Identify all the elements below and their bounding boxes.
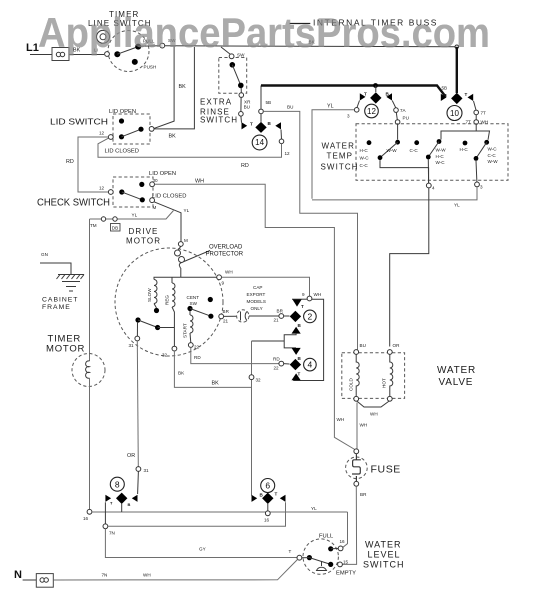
wire 21 to cam2 diamond — [284, 315, 290, 317]
temp arm C — [476, 142, 487, 158]
svg-text:N: N — [14, 569, 22, 581]
REG coil — [172, 283, 175, 307]
wire BU from 5B node to right — [263, 111, 357, 349]
wire cam14 stem up / 5B — [260, 114, 262, 122]
svg-text:WH: WH — [360, 423, 368, 428]
wire pivot down to 31 — [136, 322, 138, 336]
svg-text:LID OPEN: LID OPEN — [109, 109, 136, 115]
terminal 31 (motor) — [135, 336, 140, 341]
wire START bottom to 22 — [189, 333, 192, 343]
full contact dot — [328, 546, 333, 551]
svg-text:WH: WH — [370, 412, 378, 417]
circled 2 — [304, 310, 317, 323]
svg-text:4: 4 — [432, 186, 435, 191]
wire cam12 left to terminal 3 — [357, 101, 360, 108]
wire WH 9 to cam2 bracket — [222, 277, 310, 296]
overload protector symbol — [178, 246, 181, 250]
cam 8 diamond — [116, 493, 127, 504]
svg-text:T: T — [465, 92, 468, 97]
svg-text:W-C: W-C — [436, 160, 446, 165]
terminal 5B node — [259, 109, 264, 114]
svg-text:C-C: C-C — [360, 163, 369, 168]
terminal 32 (motor) — [172, 346, 177, 351]
wire into cam14 left contact — [240, 116, 243, 122]
svg-text:WH: WH — [195, 179, 204, 185]
circled 12 — [365, 104, 379, 118]
terminal M (motor) — [178, 242, 183, 247]
terminal above cam 14 left — [239, 112, 244, 117]
svg-text:31: 31 — [144, 468, 150, 473]
terminal M (check) — [150, 198, 155, 203]
speed arm pivot dot — [135, 317, 140, 322]
svg-text:16: 16 — [340, 539, 346, 544]
wire OR 31 down — [137, 341, 138, 467]
lid switch arm — [122, 129, 142, 137]
cam 4 top contact (B) — [292, 348, 301, 355]
svg-text:T: T — [289, 549, 292, 554]
svg-text:MOTOR: MOTOR — [46, 344, 85, 355]
terminal LI — [105, 52, 110, 57]
terminal 16 (cam6) — [265, 511, 270, 516]
svg-text:C-C: C-C — [488, 153, 497, 158]
svg-text:LID CLOSED: LID CLOSED — [105, 149, 139, 155]
svg-text:GY: GY — [199, 547, 206, 552]
svg-text:H-C: H-C — [436, 154, 445, 159]
circled 14 — [252, 135, 267, 150]
svg-text:16: 16 — [264, 518, 270, 523]
wire 7T to WH — [475, 115, 477, 120]
svg-text:YL: YL — [311, 506, 317, 511]
svg-text:TEMP: TEMP — [327, 152, 354, 161]
temp arm C tip dot — [484, 140, 489, 145]
svg-text:TM: TM — [90, 223, 97, 228]
pivot dot — [307, 555, 312, 560]
wire N line — [53, 559, 297, 580]
wire YL cam12 to left — [312, 110, 354, 199]
cam 2 diamond — [290, 311, 301, 322]
wire 21 to capacitor — [224, 315, 237, 317]
svg-text:T: T — [301, 304, 304, 309]
svg-text:6: 6 — [265, 481, 270, 491]
bus 16 horizontal — [92, 511, 348, 513]
svg-text:CAP: CAP — [253, 285, 262, 290]
junction node top right — [455, 45, 459, 49]
svg-text:WATER: WATER — [322, 142, 356, 151]
svg-text:SWITCH: SWITCH — [363, 559, 405, 569]
wire to terminal 9 — [181, 276, 217, 278]
terminal 7T/WH — [474, 120, 479, 125]
svg-text:LID SWITCH: LID SWITCH — [50, 117, 108, 127]
svg-text:BU: BU — [360, 343, 366, 348]
cam 12 right contact — [386, 93, 392, 100]
wire T to pivot — [302, 557, 310, 559]
label DB boxed — [111, 224, 121, 232]
svg-text:COLD: COLD — [349, 378, 354, 391]
terminal 7A — [394, 108, 399, 113]
svg-text:H-C: H-C — [360, 148, 369, 153]
junction dot on bus — [373, 83, 378, 88]
cam 10 left contact — [441, 94, 447, 101]
terminal 32 (net) — [249, 375, 254, 380]
check switch box — [113, 177, 153, 207]
wire capacitor to 21 right — [249, 315, 279, 317]
switch arm PULL — [117, 47, 138, 55]
svg-text:14: 14 — [255, 138, 264, 147]
wire cam8 left stem to 7N bus — [104, 502, 106, 526]
terminal 4 — [426, 183, 431, 188]
svg-text:B: B — [128, 502, 131, 507]
wire YL TM run — [90, 211, 174, 220]
terminal 7N — [103, 524, 108, 529]
svg-text:SW: SW — [190, 301, 198, 306]
terminal 31 (cam8) — [136, 467, 141, 472]
svg-text:LID OPEN: LID OPEN — [149, 171, 176, 177]
extra rinse switch arm — [232, 65, 241, 86]
svg-text:SWITCH: SWITCH — [200, 116, 238, 125]
wire YL bus to FULL — [343, 512, 348, 547]
svg-text:T: T — [250, 122, 253, 127]
terminal 12 (check) — [108, 190, 113, 195]
svg-text:22: 22 — [194, 345, 200, 350]
wire protector to coils junction — [180, 268, 182, 277]
svg-text:OR: OR — [127, 453, 135, 459]
cent sw pivot dot — [187, 306, 192, 311]
svg-text:CENT: CENT — [187, 295, 200, 300]
cent sw static dot — [208, 297, 213, 302]
wire 22 to diamond — [284, 363, 290, 365]
svg-text:15: 15 — [343, 560, 349, 565]
connector TM circle 2 — [113, 217, 117, 221]
svg-text:START: START — [183, 323, 188, 338]
temp arm B pivot dot — [426, 155, 431, 160]
water temp switch box — [356, 124, 508, 181]
svg-text:RD: RD — [194, 355, 201, 360]
extra rinse contact dot top — [230, 62, 236, 68]
svg-text:3: 3 — [480, 185, 483, 190]
wire WH from 30 to fuse — [155, 184, 355, 449]
svg-text:LEVEL: LEVEL — [368, 549, 401, 559]
speed selector arm — [138, 320, 158, 328]
wire armB pivot to terminal 4 — [427, 159, 429, 183]
svg-text:YL: YL — [184, 208, 190, 213]
svg-text:EXPORT: EXPORT — [247, 292, 266, 297]
cam 6 left contact — [252, 495, 258, 502]
water level arm — [309, 558, 330, 565]
svg-text:2: 2 — [308, 311, 313, 321]
cam 8 right contact — [132, 495, 138, 502]
circled 4 — [304, 358, 317, 371]
temp arm A tip dot — [395, 140, 400, 145]
svg-text:31: 31 — [129, 343, 135, 348]
svg-text:21: 21 — [274, 318, 280, 323]
svg-text:EXTRA: EXTRA — [200, 98, 232, 107]
wire cam10 right to 7T — [474, 101, 477, 110]
wire lid 12 to RD vertical — [78, 137, 109, 192]
terminal fuse bottom — [354, 481, 359, 486]
svg-text:7N: 7N — [109, 531, 115, 536]
static contact dot 2 — [414, 140, 419, 145]
svg-text:7A: 7A — [400, 108, 407, 113]
wire 5B up to bus — [260, 86, 262, 110]
svg-text:DRIVE: DRIVE — [129, 227, 159, 236]
wire arm to REG line — [158, 327, 175, 329]
bus 7N horizontal — [108, 502, 286, 526]
check arm tip dot — [140, 197, 145, 202]
wire M to drive motor — [154, 202, 181, 242]
wire timer motor down to 16 bus — [89, 378, 91, 510]
svg-text:W-C: W-C — [360, 156, 370, 161]
terminal 22 (motor) — [188, 343, 193, 348]
svg-text:L1: L1 — [26, 42, 39, 54]
terminal 3 (cam12) — [354, 108, 359, 113]
wire to XR terminal — [240, 88, 242, 93]
svg-text:WATER: WATER — [437, 365, 476, 376]
wire BK motor 32 — [174, 351, 251, 387]
lid open contact dot — [119, 118, 124, 123]
legend line internal timer buss — [290, 23, 311, 25]
svg-text:MODELS: MODELS — [247, 299, 266, 304]
terminal 21 (motor) — [219, 314, 224, 319]
wire left main vertical (timer motor) — [89, 219, 91, 361]
svg-text:PUSH: PUSH — [144, 65, 157, 70]
svg-text:EMPTY: EMPTY — [336, 571, 356, 577]
wire to extra rinse switch — [221, 47, 231, 55]
svg-text:16: 16 — [83, 516, 89, 521]
svg-text:FRAME: FRAME — [42, 304, 71, 311]
wire full dot to terminal — [331, 548, 339, 550]
terminal 30 — [150, 182, 155, 187]
fuse element — [352, 454, 361, 481]
cam2/cam4 outer bracket — [292, 298, 307, 300]
wire YL terminal3 to cam12 — [312, 187, 477, 200]
wire armA bottom to terminal 4 — [380, 160, 429, 183]
capacitor (export models) — [237, 310, 249, 322]
wire armC pivot to terminal 3 — [475, 161, 478, 182]
svg-text:BK: BK — [169, 134, 177, 140]
extra rinse switch box — [219, 58, 247, 94]
lid arm tip dot — [138, 127, 143, 132]
slow coil bottom dot — [154, 308, 159, 313]
terminal fuse top — [354, 449, 359, 454]
svg-text:SLOW: SLOW — [147, 288, 152, 302]
svg-text:WH: WH — [337, 417, 345, 422]
wire terminal 4 to OR valve — [390, 188, 429, 347]
cent switch arm — [190, 309, 211, 317]
svg-text:5B: 5B — [266, 100, 272, 105]
cam 8 left contact — [105, 495, 111, 502]
START coil — [190, 315, 193, 333]
wire cam8 diamond stem to 16 bus — [121, 504, 123, 512]
wire BK drop to lid switch — [152, 46, 174, 129]
svg-text:WH: WH — [225, 270, 233, 275]
temp arm A — [380, 142, 398, 158]
svg-text:M: M — [184, 238, 188, 243]
temp sw bracket from PU — [397, 124, 399, 139]
svg-text:BR: BR — [277, 309, 284, 314]
wire RD 22 to cam4 — [191, 347, 280, 363]
cam 4 bottom contact (T) — [292, 373, 301, 380]
cam 12 stem — [375, 86, 377, 93]
check sw 30 contact dot — [139, 182, 144, 187]
svg-text:22: 22 — [274, 366, 280, 371]
svg-text:T: T — [364, 92, 367, 97]
terminal 9/WH node — [307, 296, 312, 301]
svg-text:BU: BU — [287, 105, 293, 110]
svg-text:3: 3 — [347, 114, 350, 119]
svg-text:12: 12 — [367, 107, 376, 116]
svg-text:9: 9 — [302, 292, 305, 297]
cam 6 diamond — [262, 493, 273, 504]
wire coil top bus — [154, 277, 181, 279]
contact dot — [114, 51, 120, 57]
svg-text:LID CLOSED: LID CLOSED — [152, 194, 186, 200]
internal timer buss heavy line — [261, 86, 446, 97]
terminal T (water level) — [297, 555, 302, 560]
ground wire — [40, 263, 71, 274]
terminal 22 (right) — [279, 361, 284, 366]
svg-text:12: 12 — [285, 151, 291, 156]
cam 2 bottom contact (B) — [292, 327, 301, 334]
static contact dot 3 — [463, 141, 468, 146]
svg-text:7T: 7T — [481, 111, 487, 116]
cam 6 right contact — [280, 495, 286, 502]
extra rinse contact dot bottom — [238, 83, 244, 89]
svg-text:8: 8 — [115, 479, 120, 489]
temp arm B — [428, 142, 439, 158]
svg-text:12: 12 — [99, 186, 105, 191]
terminal 12 (lid) — [108, 135, 113, 140]
svg-text:OR: OR — [393, 343, 401, 348]
cam 14 right contact (B) — [275, 122, 281, 129]
svg-text:T: T — [298, 372, 301, 377]
svg-text:WATER: WATER — [365, 539, 402, 549]
svg-text:VALVE: VALVE — [439, 377, 474, 388]
water valve box — [342, 353, 405, 399]
terminal 3 (temp sw) — [475, 182, 480, 187]
terminal BU (valve) — [354, 350, 359, 355]
wire BK drop no2 to lid switch SW — [154, 47, 194, 129]
wire XR to cam14 — [240, 97, 242, 111]
svg-text:BU: BU — [244, 105, 250, 110]
valve common bracket — [357, 401, 389, 407]
overload callout line — [184, 251, 210, 262]
wire REG bottom down to 32 — [172, 307, 174, 346]
svg-text:5B: 5B — [442, 86, 448, 91]
timer line switch body (dashed circle) — [108, 31, 149, 72]
svg-text:21: 21 — [223, 319, 229, 324]
terminal 9 (motor) — [217, 275, 222, 280]
svg-text:4: 4 — [308, 360, 313, 370]
svg-text:YL: YL — [327, 104, 334, 110]
svg-text:ONLY: ONLY — [251, 306, 263, 311]
svg-text:WH: WH — [143, 573, 151, 578]
svg-text:W-W: W-W — [436, 148, 447, 153]
svg-text:AppliancePartsPros.com: AppliancePartsPros.com — [38, 9, 490, 56]
fuse body (dashed circle) — [346, 457, 368, 479]
empty contact dot — [328, 562, 333, 567]
cam 2 top contact (T) — [293, 300, 302, 307]
timer motor coil — [86, 361, 90, 378]
svg-text:M: M — [153, 205, 157, 210]
wire N lead — [23, 579, 37, 581]
svg-text:T: T — [275, 492, 278, 497]
cam 14 left contact (T) — [242, 122, 248, 129]
wire GY 7N to water level — [105, 529, 297, 558]
wire BK vertical (32 net) — [251, 341, 253, 496]
svg-text:W-W: W-W — [387, 148, 398, 153]
terminal 16 (left) — [87, 509, 92, 514]
svg-text:FUSE: FUSE — [371, 463, 401, 475]
temp sw bracket from 7T/WH — [441, 124, 476, 139]
svg-text:PU: PU — [403, 116, 409, 121]
arm tip dot — [155, 325, 160, 330]
svg-text:RD: RD — [241, 163, 249, 169]
wire 7A to PU — [396, 112, 397, 119]
check switch arm — [122, 192, 143, 200]
wire BK top run to timer (y=46.3) — [165, 46, 457, 47]
COLD coil — [356, 354, 359, 396]
svg-text:CABINET: CABINET — [42, 297, 78, 304]
check contact dot — [119, 189, 124, 194]
wire START top — [189, 311, 191, 315]
svg-text:DB: DB — [112, 226, 118, 231]
svg-text:BR: BR — [223, 309, 230, 314]
timer motor body (dashed circle) — [72, 354, 105, 387]
contact dot PULL — [135, 44, 141, 50]
cam 12 left contact — [360, 93, 366, 100]
wire cam2 B to common bar — [284, 334, 296, 348]
svg-text:MOTOR: MOTOR — [126, 237, 161, 246]
connector plug N — [36, 574, 53, 588]
wire cam6 diamond stem — [267, 504, 269, 511]
svg-text:BK: BK — [178, 371, 185, 376]
svg-text:CHECK SWITCH: CHECK SWITCH — [37, 198, 110, 209]
terminal XR — [239, 93, 244, 98]
terminal 12 (cam14) — [279, 139, 284, 144]
svg-text:32: 32 — [162, 353, 168, 358]
connector TM circle 1 — [101, 217, 105, 221]
svg-text:PROTECTOR: PROTECTOR — [206, 252, 244, 258]
HOT coil — [390, 354, 393, 396]
cam 12 diamond — [370, 92, 381, 103]
temp arm B tip dot — [437, 139, 442, 144]
temp arm A pivot dot — [378, 155, 383, 160]
terminal 7T — [474, 110, 479, 115]
timer line switch grommet — [97, 30, 110, 43]
contact dot PUSH — [132, 59, 138, 65]
terminal EMPTY — [338, 562, 343, 567]
pressure dome — [317, 562, 327, 571]
svg-text:W-W: W-W — [488, 159, 499, 164]
cam 14 diamond — [255, 122, 266, 133]
svg-text:REG: REG — [165, 295, 170, 305]
wire L1 to timer line switch — [69, 54, 104, 56]
terminal FULL — [338, 546, 343, 551]
lid switch box — [113, 114, 150, 144]
ground symbol cabinet frame — [57, 275, 85, 292]
svg-text:RD: RD — [273, 357, 280, 362]
wire arm to SW terminal — [138, 45, 160, 48]
wire 31 to cam8 right contact — [137, 471, 140, 494]
temp arm C pivot dot — [474, 156, 479, 161]
svg-text:RD: RD — [66, 159, 74, 165]
svg-text:W-C: W-C — [488, 147, 498, 152]
wire fuse to EMPTY — [342, 486, 356, 564]
svg-text:BR: BR — [360, 492, 367, 497]
svg-text:HOT: HOT — [382, 378, 387, 388]
SLOW coil — [154, 280, 157, 304]
circled 8 — [110, 477, 124, 491]
